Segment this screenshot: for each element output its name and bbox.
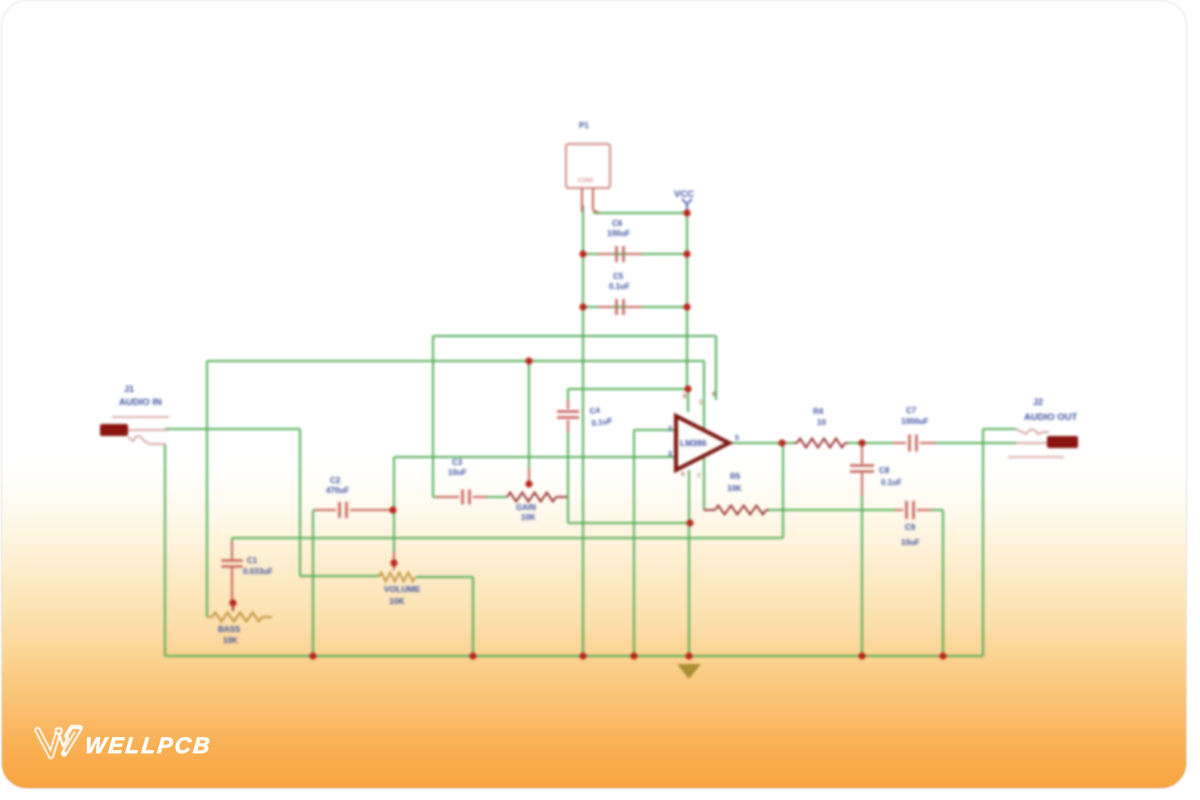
svg-text:C5: C5 (613, 272, 624, 281)
svg-text:10: 10 (817, 418, 826, 427)
svg-text:10K: 10K (521, 513, 536, 522)
svg-text:4: 4 (681, 472, 685, 478)
svg-text:3: 3 (668, 451, 672, 458)
svg-text:BASS: BASS (218, 625, 241, 634)
svg-text:1: 1 (699, 400, 703, 406)
svg-text:J2: J2 (1033, 397, 1043, 407)
svg-text:1000uF: 1000uF (901, 417, 929, 426)
svg-text:C7: C7 (906, 406, 917, 415)
svg-text:0.1uF: 0.1uF (591, 416, 613, 428)
svg-text:VCC: VCC (674, 189, 694, 200)
svg-text:C4: C4 (589, 406, 601, 416)
svg-text:AUDIO OUT: AUDIO OUT (1024, 412, 1078, 423)
svg-text:10uF: 10uF (448, 468, 467, 477)
svg-text:J1: J1 (124, 384, 134, 394)
svg-text:C3: C3 (452, 458, 463, 467)
svg-text:VOLUME: VOLUME (384, 584, 421, 594)
svg-text:AUDIO IN: AUDIO IN (119, 397, 162, 408)
svg-text:R4: R4 (813, 407, 824, 416)
svg-text:10K: 10K (389, 596, 405, 606)
svg-text:470uF: 470uF (326, 486, 349, 495)
svg-text:P1: P1 (579, 121, 589, 130)
svg-text:0.1uF: 0.1uF (881, 478, 902, 487)
svg-text:C8: C8 (879, 466, 890, 475)
svg-text:GAIN: GAIN (516, 503, 536, 512)
svg-text:C2: C2 (330, 476, 341, 485)
svg-text:LM386: LM386 (680, 438, 707, 448)
svg-text:CON2: CON2 (578, 178, 593, 184)
svg-text:10uF: 10uF (901, 538, 920, 547)
svg-text:10K: 10K (223, 636, 238, 645)
svg-text:7: 7 (697, 474, 701, 480)
svg-text:6: 6 (683, 394, 687, 400)
svg-text:0.1uF: 0.1uF (609, 282, 630, 291)
svg-text:0.033uF: 0.033uF (243, 567, 273, 576)
svg-text:2: 2 (668, 426, 672, 433)
svg-text:C1: C1 (247, 556, 258, 565)
svg-text:5: 5 (735, 435, 739, 442)
svg-text:10K: 10K (727, 484, 742, 493)
svg-text:100uF: 100uF (607, 229, 630, 238)
svg-text:R5: R5 (730, 472, 741, 481)
svg-text:C9: C9 (905, 523, 916, 532)
svg-text:C6: C6 (612, 219, 623, 228)
